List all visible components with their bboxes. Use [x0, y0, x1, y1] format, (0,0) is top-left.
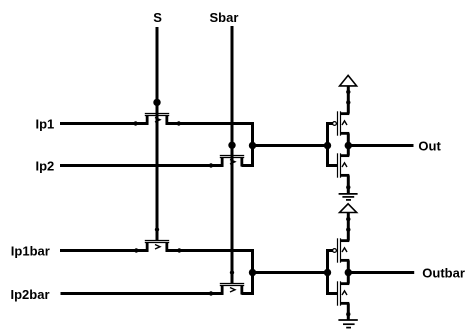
- svg-text:Ip1bar: Ip1bar: [11, 243, 50, 258]
- pin dot M2 source: [209, 163, 213, 167]
- junction dot inverter2 output: [345, 269, 352, 276]
- pin dot S line end at M3 gate: [155, 227, 159, 231]
- svg-text:Outbar: Outbar: [422, 265, 465, 280]
- svg-text:Ip2bar: Ip2bar: [11, 287, 50, 302]
- wire VDD1 to P1 source: [347, 86, 350, 114]
- junction dot inverter1 output: [345, 142, 352, 149]
- pin dot M3 source: [134, 248, 138, 252]
- node Ip1bar label: [11, 243, 50, 258]
- pin dot N2 source: [346, 312, 350, 316]
- wire N1 source to ground: [347, 175, 350, 193]
- transistor M3 (nmos pass, gate S): [145, 241, 169, 252]
- pin dot M4 source: [209, 291, 213, 295]
- wire Ip2 input: [60, 164, 224, 167]
- pin dot Sbar line end at M4 gate: [230, 270, 234, 274]
- ground GND1: [339, 194, 358, 200]
- wire Ip1 input: [60, 122, 149, 125]
- node Ip2bar label: [11, 287, 50, 302]
- wire Ip1bar input: [60, 249, 149, 252]
- junction dot inverter2 input: [324, 269, 331, 276]
- pin dot N1 source: [346, 185, 350, 189]
- pin dot VDD1: [346, 90, 350, 94]
- node Ip1 label: [36, 116, 55, 131]
- ground GND2: [338, 320, 357, 328]
- transistor M2 (nmos pass, gate Sbar): [220, 156, 244, 167]
- vdd symbol VDD2: [340, 204, 357, 213]
- transistor N1 (nmos of inverter1): [328, 153, 350, 177]
- transistor N2 (nmos of inverter2): [328, 281, 350, 305]
- pin dot M3 drain: [177, 248, 181, 252]
- pin dot M1 drain: [177, 121, 181, 125]
- junction dot M1 gate on S: [153, 99, 160, 106]
- pin dot M1 source: [133, 121, 137, 125]
- wire Out: [348, 144, 413, 147]
- junction dot inverter1 input: [324, 142, 331, 149]
- node Outbar label: [422, 265, 465, 280]
- wire M1 drain to node A: [166, 124, 253, 166]
- svg-text:Ip2: Ip2: [36, 158, 55, 173]
- vdd symbol VDD1: [340, 75, 357, 86]
- node Ip2 label: [36, 158, 55, 173]
- wire VDD2 to P2 source: [347, 213, 350, 241]
- wire node A to inverter1 input: [253, 144, 328, 147]
- transistor P2 (pmos of inverter2): [328, 238, 350, 262]
- wire M3 drain to node B: [166, 251, 253, 294]
- wire Sbar vertical: [231, 26, 234, 284]
- wire N2 source to ground: [347, 303, 350, 319]
- wire inverter2 input gate bar: [326, 249, 329, 295]
- wire P1 drain to out node: [347, 133, 350, 155]
- wire P2 drain to outbar node: [347, 260, 350, 283]
- transistor P1 (pmos of inverter1): [328, 111, 350, 135]
- junction dot node A: [249, 142, 256, 149]
- node Out label: [418, 139, 441, 154]
- node Sbar label: [210, 10, 239, 25]
- wire S vertical: [156, 27, 159, 241]
- svg-text:Sbar: Sbar: [210, 10, 239, 25]
- svg-text:S: S: [153, 10, 162, 25]
- junction dot M2 gate on Sbar: [228, 142, 235, 149]
- pin dot VDD2: [346, 217, 350, 221]
- node S label: [153, 10, 162, 25]
- svg-text:Out: Out: [418, 139, 441, 154]
- junction dot node B: [249, 269, 256, 276]
- wire inverter1 input gate bar: [326, 122, 329, 167]
- pin dot P1 source: [346, 100, 350, 104]
- wire node B to inverter2 input: [253, 271, 328, 274]
- pin dot P2 source: [346, 227, 350, 231]
- transistor M4 (nmos pass, gate Sbar): [220, 284, 244, 295]
- svg-text:Ip1: Ip1: [36, 116, 55, 131]
- wire Ip2bar input: [61, 292, 224, 295]
- transistor M1 (nmos pass, gate S): [145, 114, 169, 125]
- wire Outbar: [348, 271, 414, 274]
